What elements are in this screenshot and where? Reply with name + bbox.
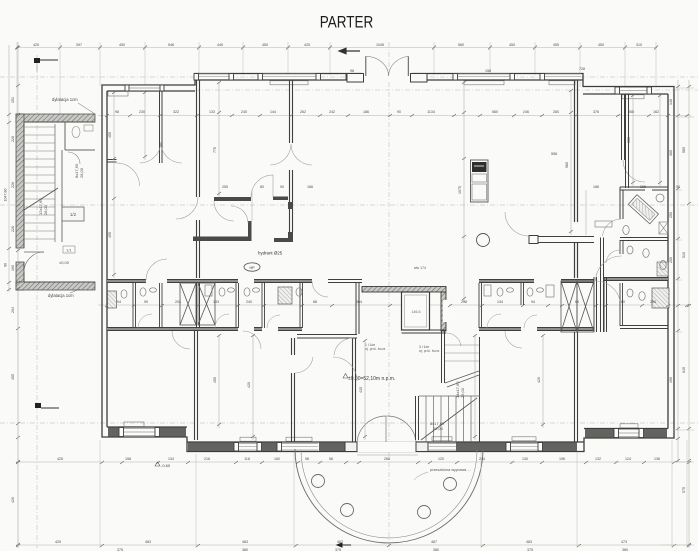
inner line right bottom — [584, 428, 668, 430]
bottom dimension chain — [16, 544, 691, 546]
svg-text:425: 425 — [304, 43, 310, 47]
horizontal dim chain mid-upper — [98, 115, 691, 117]
stair east wall — [479, 337, 481, 442]
inner wall line right section top — [583, 93, 668, 95]
svg-text:775: 775 — [213, 147, 217, 153]
svg-text:242: 242 — [329, 110, 335, 114]
core bottom band — [402, 330, 447, 333]
vestibule wall y198 right — [273, 197, 288, 201]
inner line right wall — [667, 94, 669, 429]
hatched left wall band lower — [16, 262, 24, 290]
corridor door arcs right — [596, 256, 622, 281]
svg-text:1075: 1075 — [458, 186, 462, 194]
bottom right window — [614, 429, 644, 438]
svg-text:246: 246 — [523, 110, 529, 114]
corridor right section wall — [604, 278, 668, 281]
svg-text:dylatacja 1cm: dylatacja 1cm — [48, 293, 74, 298]
svg-text:dylatacja 1cm: dylatacja 1cm — [52, 97, 78, 102]
svg-text:90: 90 — [676, 185, 680, 189]
section marker B left top — [34, 58, 58, 72]
svg-text:420: 420 — [247, 382, 251, 388]
terrace inner arc — [301, 450, 477, 538]
svg-text:575: 575 — [682, 487, 686, 493]
svg-text:455: 455 — [213, 377, 217, 383]
svg-text:98: 98 — [350, 69, 354, 73]
svg-text:483: 483 — [526, 540, 532, 544]
bathroom bottom wall y239 — [620, 238, 668, 241]
radiators above bottom windows — [240, 424, 638, 441]
svg-text:1134: 1134 — [427, 110, 435, 114]
svg-text:450: 450 — [598, 43, 604, 47]
lower bathroom left wall — [620, 240, 623, 254]
svg-text:455: 455 — [108, 132, 112, 138]
svg-text:94: 94 — [531, 300, 535, 304]
wall main vertical x198 lower part — [197, 220, 200, 278]
svg-text:240: 240 — [246, 300, 252, 304]
svg-text:473: 473 — [621, 540, 627, 544]
svg-text:455: 455 — [11, 374, 15, 380]
svg-text:88: 88 — [313, 300, 317, 304]
corridor north wall y281 left part — [107, 280, 146, 283]
svg-text:262: 262 — [300, 110, 306, 114]
kitchen unit — [471, 160, 489, 202]
svg-text:204: 204 — [175, 300, 181, 304]
wall vertical x291 mid — [290, 170, 293, 232]
stair treads vertical — [426, 396, 471, 442]
svg-text:555: 555 — [628, 110, 634, 114]
bathtub (rotated) upper bathroom — [628, 195, 658, 224]
door arc corridor left — [146, 259, 167, 280]
upper right wc toilet — [660, 261, 666, 270]
hatched top wall band — [16, 114, 95, 122]
washing machine X-box upper bathroom — [659, 222, 668, 234]
svg-text:HP: HP — [250, 266, 256, 270]
svg-text:130: 130 — [522, 457, 528, 461]
terrace outer arc — [295, 449, 483, 543]
wall horizontal y239 right (x529-594) with end block — [529, 236, 538, 244]
svg-text:28,00: 28,00 — [43, 204, 48, 215]
terrace door opening — [357, 442, 418, 453]
stair break diagonals — [445, 371, 479, 387]
radiator under top-left window — [108, 92, 128, 97]
svg-text:558: 558 — [551, 152, 557, 156]
svg-text:265: 265 — [640, 185, 646, 189]
bathroom left wall — [620, 187, 623, 219]
tick marks on top chain — [15, 46, 658, 50]
svg-text:510: 510 — [682, 252, 686, 258]
svg-text:425: 425 — [57, 457, 63, 461]
vestibule door arc (up) — [251, 175, 273, 197]
horizontal axis line y205 — [0, 204, 698, 206]
svg-text:216: 216 — [204, 457, 210, 461]
vestibule door arc lower — [231, 206, 248, 223]
svg-text:310: 310 — [636, 43, 642, 47]
horizontal dim chain y115 ticks — [105, 114, 689, 117]
wall vertical x291 upper — [290, 80, 293, 143]
right wc south wall — [620, 326, 668, 329]
wall upper-left room divider vertical x160 — [160, 91, 163, 163]
svg-text:133: 133 — [213, 300, 219, 304]
svg-text:hydrant Ø25: hydrant Ø25 — [258, 251, 283, 256]
lift box 1/2 — [62, 207, 84, 221]
svg-text:80: 80 — [260, 185, 264, 189]
door arc top-left room — [202, 91, 222, 111]
window top-left section — [125, 85, 164, 91]
terrace column 4 — [444, 478, 457, 491]
left vertical dim chain — [17, 42, 19, 548]
extension lines from top chain to building — [17, 42, 656, 114]
ventilation shaft X-box left pair — [180, 283, 215, 325]
interior vertical dim line left rooms x114 — [114, 82, 660, 440]
svg-text:304: 304 — [356, 300, 362, 304]
vestibule door arc inner — [214, 201, 234, 221]
section marker B bottom — [337, 543, 351, 547]
bottom-left window — [119, 428, 160, 437]
svg-text:230: 230 — [139, 110, 145, 114]
svg-text:415: 415 — [359, 387, 363, 393]
svg-text:445: 445 — [217, 43, 223, 47]
far-left vertical dim line x9 — [8, 45, 10, 292]
annex wc partition wall — [65, 122, 95, 150]
svg-text:160: 160 — [11, 265, 15, 271]
window mid top 1 — [194, 74, 234, 81]
svg-text:420: 420 — [11, 497, 15, 503]
svg-text:555: 555 — [627, 137, 631, 143]
wc room 5 fixtures — [278, 287, 292, 304]
window mid top 6 — [540, 74, 581, 81]
washbasin — [627, 246, 633, 254]
svg-text:296: 296 — [650, 300, 656, 304]
wc room 2 fixtures — [140, 288, 146, 296]
door arc right divider — [623, 160, 645, 182]
svg-text:90: 90 — [280, 185, 284, 189]
svg-text:450: 450 — [119, 43, 125, 47]
svg-text:186: 186 — [363, 110, 369, 114]
svg-text:146.6: 146.6 — [412, 310, 421, 314]
bathroom partitions verticals — [133, 283, 136, 328]
svg-text:29,00: 29,00 — [433, 426, 444, 431]
top dimension chain — [16, 47, 657, 49]
svg-text:160: 160 — [619, 300, 625, 304]
door arcs bathroom row — [138, 314, 537, 328]
svg-text:162: 162 — [653, 110, 659, 114]
door arc on x198 wall gap — [176, 197, 198, 219]
svg-text:151: 151 — [11, 97, 15, 103]
stair west wall upper — [442, 331, 445, 383]
svg-text:1047,80: 1047,80 — [4, 189, 8, 202]
corridor wall infill bands — [107, 278, 668, 330]
wall vertical x623 top right divider — [622, 94, 625, 160]
vestibule block x290 — [288, 232, 293, 242]
svg-text:przeszklona wyprawa ...: przeszklona wyprawa ... — [430, 468, 471, 472]
wall vertical x354 lower — [353, 338, 356, 442]
annex entry door arc — [24, 252, 44, 272]
right wc (lower) wall — [620, 283, 623, 326]
right vertical chains ticks — [676, 85, 691, 546]
svg-text:560: 560 — [492, 110, 498, 114]
svg-text:wto 174: wto 174 — [414, 266, 426, 270]
svg-text:PARTER: PARTER — [320, 13, 373, 32]
level mark terrace — [155, 462, 160, 466]
svg-text:483: 483 — [145, 540, 151, 544]
svg-text:226: 226 — [11, 182, 15, 188]
svg-text:98: 98 — [305, 457, 309, 461]
extension lines bottom — [18, 292, 687, 548]
stair diagonal up-line — [24, 188, 58, 210]
stair top edge — [419, 395, 480, 397]
shower tray — [657, 262, 668, 276]
svg-text:158: 158 — [485, 69, 491, 73]
inner line left bottom — [107, 426, 187, 428]
wall x576 lower part — [575, 243, 578, 278]
right vertical dim chain 1 — [677, 80, 679, 462]
stair diagonal cut — [421, 398, 477, 440]
svg-text:134: 134 — [168, 457, 174, 461]
svg-text:204: 204 — [11, 307, 15, 313]
svg-text:425: 425 — [33, 43, 39, 47]
washbasin upper bathroom (round) — [656, 194, 664, 202]
hatched left wall band — [16, 114, 24, 248]
horizontal axis line y423 — [0, 422, 698, 424]
top-right room divider wall x627 — [626, 94, 629, 188]
svg-text:420: 420 — [537, 377, 541, 383]
right vertical dim chain 2 — [688, 80, 690, 548]
window mid top 2 (long) — [258, 74, 321, 81]
horizontal dim chain y305 ticks — [105, 304, 689, 307]
svg-text:365: 365 — [669, 150, 673, 156]
door arcs pair at x291 wall — [270, 144, 312, 165]
wall x602 vertical (wc lobby) — [601, 238, 604, 333]
entrance door swing arcs — [366, 56, 409, 76]
svg-text:1045: 1045 — [376, 43, 384, 47]
corridor north wall right of core — [479, 280, 534, 283]
inner line centre bottom — [187, 441, 584, 443]
mid bathroom south wall y336 — [297, 335, 357, 339]
wall thick vertical x576 (hall / right apartment) — [575, 80, 578, 222]
svg-text:158: 158 — [125, 457, 131, 461]
inner line left wall — [106, 91, 108, 427]
door arc core bottom right — [446, 333, 461, 346]
terrace column 2 — [341, 504, 354, 517]
inner wall line mid section top — [195, 79, 583, 81]
wall main vertical x198 upper — [197, 80, 200, 197]
door arc mid bathroom exit — [334, 338, 353, 355]
wall vertical x576 lower (right of stairs) — [575, 332, 578, 442]
dim ticks on interior verticals — [112, 81, 662, 438]
svg-text:±0.00=52,10m n.p.m.: ±0.00=52,10m n.p.m. — [348, 376, 395, 382]
svg-text:1/1: 1/1 — [66, 248, 72, 253]
wall vertical x196 lower — [195, 331, 198, 440]
corridor north wall y281 centre-left — [197, 280, 239, 283]
svg-text:160: 160 — [274, 457, 280, 461]
entrance jamb piers — [347, 74, 364, 83]
svg-text:240: 240 — [241, 110, 247, 114]
svg-text:980: 980 — [565, 162, 569, 168]
horizontal dim chain corridor — [98, 304, 691, 306]
window mid top 3 small — [346, 74, 363, 81]
svg-text:136: 136 — [654, 457, 660, 461]
window mid top 5 (long) — [453, 74, 515, 81]
toilet upper bathroom — [623, 226, 629, 235]
door arc at wall y239 — [505, 212, 529, 236]
svg-text:560: 560 — [458, 43, 464, 47]
wc room 1 fixtures — [108, 291, 117, 308]
svg-text:wj. próć. tworz: wj. próć. tworz — [365, 347, 386, 351]
svg-text:255: 255 — [222, 185, 228, 189]
svg-text:64: 64 — [575, 300, 579, 304]
svg-text:134: 134 — [497, 300, 503, 304]
svg-text:397: 397 — [76, 43, 82, 47]
svg-text:90: 90 — [397, 110, 401, 114]
svg-text:146: 146 — [669, 99, 673, 105]
svg-text:728: 728 — [579, 67, 585, 71]
radiator left of bathroom door — [595, 221, 612, 227]
svg-text:450: 450 — [262, 43, 268, 47]
core hatched right band — [441, 292, 446, 331]
door arc upper-left room — [117, 163, 140, 186]
annex wc fixtures — [68, 125, 93, 164]
bottom centre window 3 — [429, 443, 456, 451]
core door opening right — [443, 300, 449, 322]
terrace double door arcs (opening up) — [357, 416, 416, 442]
right side wc fixtures — [484, 285, 491, 296]
south band wall y329 left — [107, 328, 197, 331]
svg-text:132: 132 — [595, 457, 601, 461]
box 1/1 — [63, 246, 75, 253]
svg-text:90: 90 — [144, 300, 148, 304]
horizontal dim chain lower — [16, 461, 691, 463]
solid wall blocks along bottom band — [108, 428, 667, 452]
bathroom outline top — [620, 187, 668, 190]
door arc lower wc — [606, 250, 620, 263]
svg-text:585: 585 — [682, 147, 686, 153]
svg-text:-0,60: -0,60 — [161, 463, 171, 468]
radiator under bottom-left window — [124, 422, 144, 427]
svg-text:200: 200 — [669, 257, 673, 263]
terrace column 1 — [312, 475, 325, 488]
hatched bottom wall band — [16, 282, 95, 290]
vertical axis through centre x389 — [388, 42, 390, 551]
dylatacja leader line — [78, 103, 95, 114]
bottom centre window 1 — [234, 443, 262, 452]
vestibule wall y240 right — [274, 238, 288, 242]
svg-text:467: 467 — [337, 540, 343, 544]
svg-text:120: 120 — [438, 457, 444, 461]
svg-text:483: 483 — [242, 540, 248, 544]
svg-text:268: 268 — [384, 457, 390, 461]
terrace column 3 — [418, 506, 431, 519]
svg-text:29,00: 29,00 — [460, 387, 465, 398]
svg-text:546: 546 — [168, 43, 174, 47]
door arc into bathroom — [603, 219, 622, 236]
lift car box — [402, 292, 430, 330]
door arcs lower rooms (from corridor) — [172, 331, 522, 381]
terrace step edge under doors — [357, 454, 418, 456]
vestibule stub x249 — [248, 221, 252, 241]
wall upper-left horizontal y160 — [107, 160, 117, 163]
vestibule wall y199 — [214, 197, 251, 201]
svg-text:226: 226 — [11, 136, 15, 142]
ventilation shaft X-box right pair — [561, 281, 594, 332]
lower wc fixtures — [627, 246, 668, 276]
svg-text:280: 280 — [553, 110, 559, 114]
svg-text:186: 186 — [593, 185, 599, 189]
svg-text:1/2: 1/2 — [70, 212, 77, 217]
svg-text:226: 226 — [11, 226, 15, 232]
svg-text:133: 133 — [209, 110, 215, 114]
mid bathroom east wall — [356, 283, 359, 334]
svg-text:124: 124 — [625, 457, 631, 461]
axis line below mid top wall — [195, 89, 698, 91]
door arcs pair at x160 wall bottom — [140, 142, 182, 163]
main entrance opening — [362, 73, 412, 82]
svg-text:98: 98 — [115, 110, 119, 114]
svg-text:455: 455 — [108, 232, 112, 238]
svg-text:455: 455 — [553, 43, 559, 47]
annex inner face lines — [24, 122, 95, 282]
entrance door leaves (open) — [365, 56, 367, 76]
wall vertical x293 lower with door — [292, 338, 295, 355]
svg-text:58: 58 — [329, 457, 333, 461]
svg-text:90: 90 — [4, 263, 8, 267]
wc room 4 fixtures — [244, 288, 250, 296]
stair west wall lower — [416, 396, 419, 440]
svg-text:166: 166 — [307, 185, 313, 189]
HP hydrant oval lower — [244, 263, 260, 271]
pilaster block on x291 wall — [288, 202, 293, 209]
terrace pillar right — [416, 442, 428, 452]
core hatched top band — [362, 287, 446, 293]
stair flight right edge — [61, 150, 63, 242]
svg-text:±0,00: ±0,00 — [59, 260, 70, 265]
inner wall line top-left section — [107, 90, 195, 92]
second faint horizontal axis line upper — [0, 76, 698, 78]
svg-text:wj. próć. tworz: wj. próć. tworz — [419, 349, 440, 353]
stair treads left flight — [24, 127, 55, 239]
south band wall centre-left — [197, 328, 239, 331]
bottom centre window 2 — [277, 443, 318, 452]
bottom centre window 4 — [506, 443, 543, 452]
south band wall right part — [479, 328, 521, 331]
toilet — [643, 249, 649, 258]
horizontal dim chain y462 ticks — [16, 461, 691, 464]
stair centre rail — [54, 124, 56, 242]
left vertical chain ticks — [16, 46, 20, 546]
stair upper treads — [445, 345, 479, 361]
column circle in hall — [477, 234, 490, 247]
svg-text:196: 196 — [559, 457, 565, 461]
svg-text:118: 118 — [244, 457, 250, 461]
svg-text:298: 298 — [461, 300, 467, 304]
wc room 3 fixtures — [205, 285, 212, 296]
svg-text:615: 615 — [682, 367, 686, 373]
outer wall outline — [102, 74, 674, 452]
svg-text:490: 490 — [669, 377, 673, 383]
vertical axis x37 — [36, 55, 38, 548]
entrance direction arrow — [339, 48, 360, 54]
window top-right section — [615, 87, 652, 94]
extension lines right side — [660, 88, 694, 545]
svg-text:376: 376 — [593, 110, 599, 114]
svg-text:244: 244 — [479, 457, 485, 461]
svg-text:467: 467 — [431, 540, 437, 544]
terrace pillar left — [345, 442, 357, 452]
section marker B left bottom — [35, 403, 59, 408]
right wc fixtures — [627, 288, 669, 308]
svg-text:450: 450 — [509, 43, 515, 47]
svg-text:322: 322 — [173, 110, 179, 114]
radiators under top windows mid — [270, 81, 644, 99]
